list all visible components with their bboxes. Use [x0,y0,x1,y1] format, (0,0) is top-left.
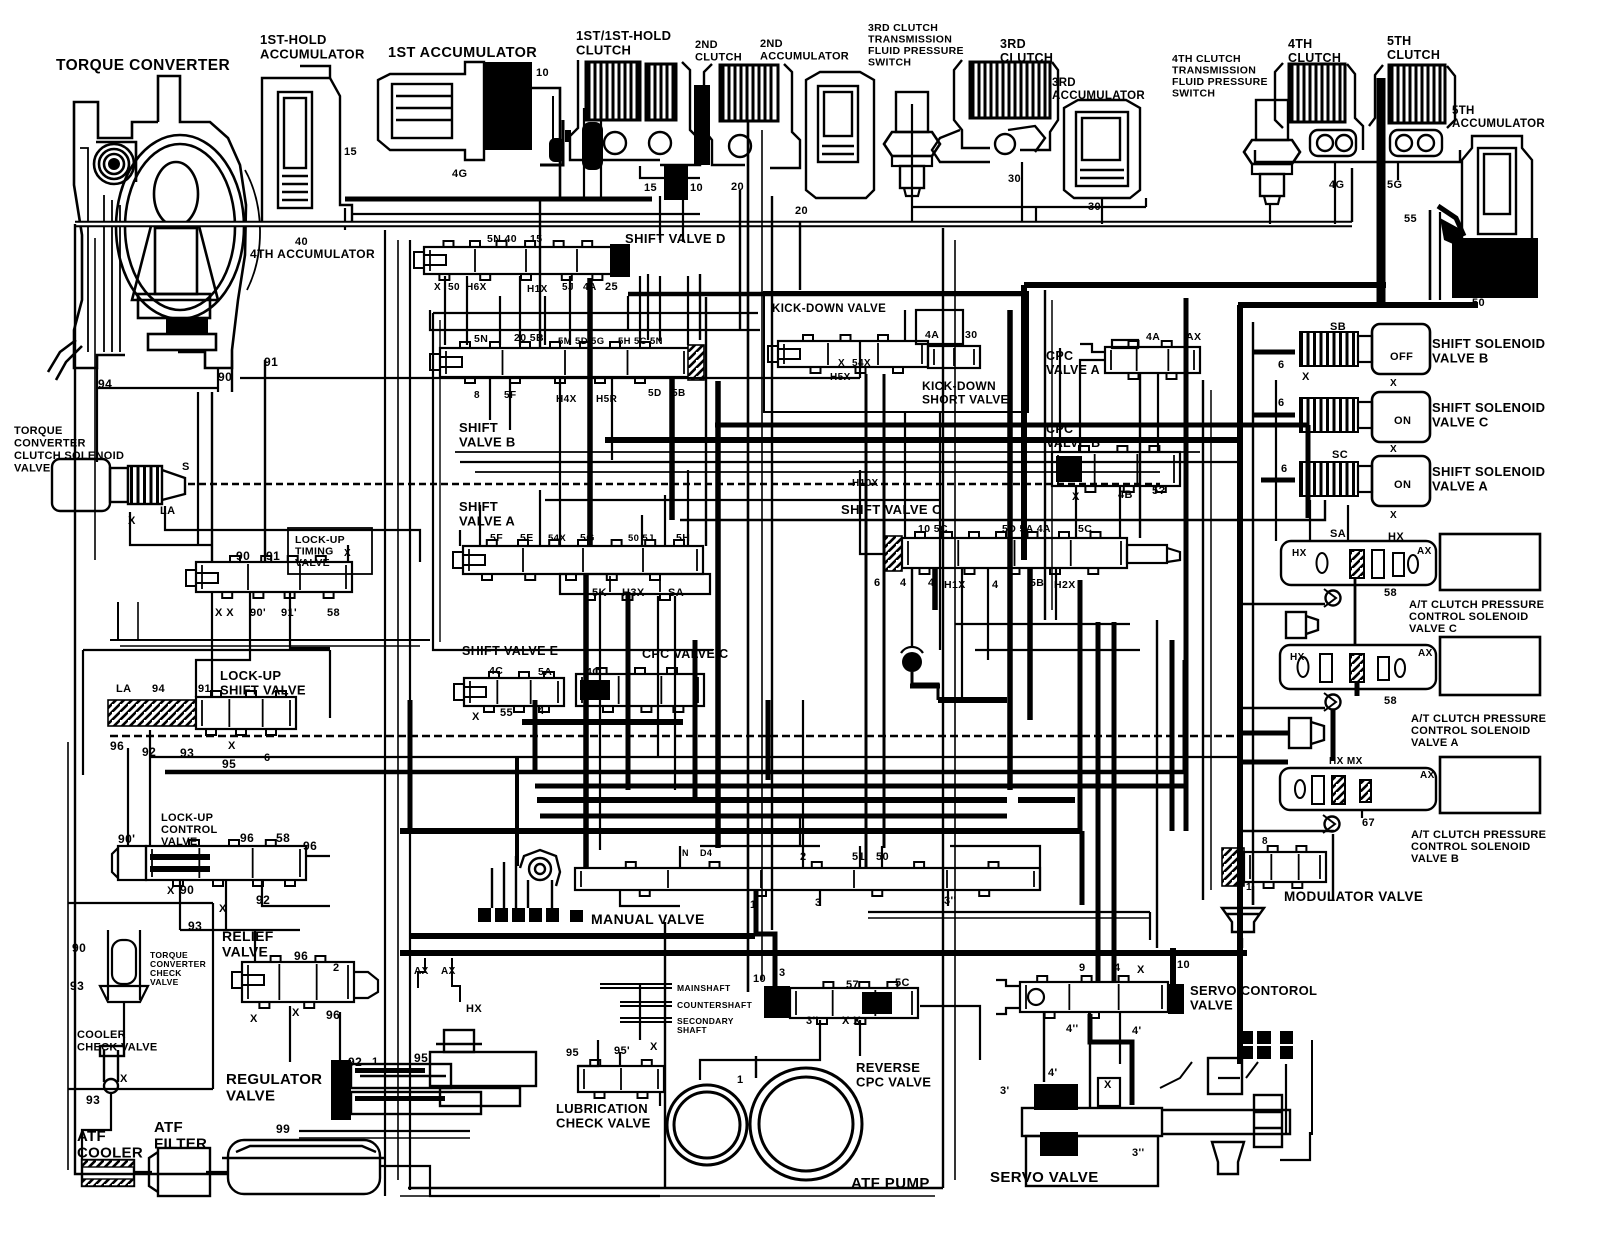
svg-text:3'': 3'' [1132,1147,1145,1159]
wire [687,470,689,546]
wire [1347,505,1349,541]
svg-text:94: 94 [152,683,166,695]
svg-text:4A: 4A [925,329,939,341]
shift valve C [902,532,1127,574]
svg-text:94: 94 [98,377,112,391]
wire 25 pipe [628,292,1024,297]
wire [519,276,521,345]
wire [409,240,411,700]
wire [165,506,420,562]
svg-text:4': 4' [1048,1067,1058,1079]
A/T CPC valve C ports [1317,550,1419,578]
check ball 2 [582,108,603,200]
svg-text:50 5J: 50 5J [628,533,654,544]
wire [289,1006,291,1062]
wire [1354,578,1357,645]
wire [799,816,801,846]
wire [657,596,659,757]
wire [1139,373,1141,538]
wire [1183,660,1188,772]
wire [539,200,541,348]
svg-text:58: 58 [327,607,340,619]
svg-text:10: 10 [536,67,549,79]
wire [1397,162,1399,180]
wire [515,757,519,866]
wire [802,700,804,868]
check ball 1 [549,138,564,162]
svg-text:96: 96 [294,949,308,963]
svg-text:X: X [650,1041,658,1053]
svg-text:SA: SA [1330,528,1346,540]
wire [939,412,941,650]
5th accumulator hook pipe [1429,210,1432,300]
svg-text:55: 55 [500,707,513,719]
shift valve D [424,241,628,280]
svg-text:HX: HX [1292,548,1307,559]
shaft stubs [600,984,672,1022]
svg-text:1ST ACCUMULATOR: 1ST ACCUMULATOR [388,45,537,61]
wire [955,623,1130,625]
wire [1240,731,1288,736]
svg-text:58: 58 [276,831,290,845]
wire [537,797,1007,803]
wire [1075,486,1077,538]
wire [197,392,199,545]
svg-text:X: X [1104,1079,1112,1091]
wire [1080,360,1105,452]
wire [127,748,129,846]
wire [771,196,773,930]
CPC valve B plug [1056,456,1082,482]
svg-text:58: 58 [1384,587,1397,599]
wire [1112,622,1117,982]
svg-text:20: 20 [731,181,744,193]
lock-up control valve spool bar 2 [150,866,210,872]
wire [499,296,501,345]
1st/2nd clutch divider (black) [694,85,710,165]
wire [583,574,589,868]
wire [1051,300,1053,610]
wire [1090,1014,1132,1105]
wire 99 pipe [299,1130,470,1132]
wire [545,499,940,501]
wire [747,120,750,992]
svg-text:AX: AX [1420,770,1435,781]
wire [627,296,629,330]
wire [687,276,689,345]
wire [522,719,683,725]
wire [1275,380,1277,541]
wire [756,890,775,986]
svg-text:AX: AX [1418,648,1433,659]
svg-text:4'': 4'' [1066,1023,1079,1035]
atf pump [667,1068,862,1180]
manual valve [575,862,1040,896]
wire [240,377,860,379]
A/T CPC valve C block [1440,534,1540,590]
lubrication check valve [578,1060,664,1098]
wire [911,568,913,648]
wire [620,890,680,906]
svg-text:58: 58 [1384,695,1397,707]
shift solenoid valve C box [1372,392,1430,442]
shift solenoid valve A coil [1300,462,1372,496]
svg-text:1: 1 [372,1056,379,1068]
svg-text:X: X [838,358,845,369]
wire [533,700,538,772]
svg-text:X: X [1390,378,1397,389]
wire [904,310,906,341]
4th clutch pressure switch [1244,100,1300,204]
wire [344,208,346,230]
1st/1st-hold clutch pack [586,62,640,120]
shift valve E [464,672,564,712]
servo control valve [1020,976,1168,1018]
svg-text:X X: X X [842,1015,861,1027]
shift valve C left hatch [884,536,902,571]
svg-text:4G: 4G [452,168,467,180]
wire [352,213,700,215]
wire [1024,282,1386,288]
wire [400,950,1247,956]
wire [1145,198,1147,207]
ball check valve symbol [901,647,923,680]
svg-text:SHIFT VALVE C: SHIFT VALVE C [841,502,942,517]
shift solenoid valve B box [1372,324,1430,374]
wire [1080,831,1085,905]
wire [400,1195,935,1197]
wire [715,423,1308,428]
wire [942,228,944,1188]
svg-text:5D: 5D [648,388,662,399]
wire [664,922,666,1188]
wire [987,568,989,660]
A/T clutch pressure control solenoid valve B body [1280,768,1436,810]
wire [1361,810,1363,818]
wire [1252,322,1254,905]
wire [1285,1064,1287,1135]
svg-text:SERVO VALVE: SERVO VALVE [990,1169,1099,1186]
1st accumulator [378,62,484,160]
wire [211,592,213,697]
wire [975,649,1140,651]
wire SA rail [680,500,1325,520]
wire [535,784,627,789]
regulator valve bars [355,1068,425,1073]
svg-text:COUNTERSHAFT: COUNTERSHAFT [677,1000,753,1010]
wire [639,276,641,341]
3rd clutch housing [932,60,1058,162]
servo control valve end cap [1168,984,1184,1014]
svg-text:9: 9 [1079,962,1086,974]
wire [920,1006,980,1060]
atf cooler [82,1160,134,1186]
wire [165,770,1185,775]
kick-down short valve [928,346,980,368]
wire [466,276,468,345]
wire [540,120,563,165]
wire [868,917,1150,919]
shift valve B [440,342,690,383]
wire [97,387,218,389]
svg-text:KICK-DOWNSHORT VALVE: KICK-DOWNSHORT VALVE [922,379,1009,407]
svg-text:SHIFT VALVE D: SHIFT VALVE D [625,231,726,246]
wire check A to rail [1240,707,1325,710]
2nd clutch pack [720,65,778,121]
wire [1007,310,1013,790]
wire [627,784,1185,789]
check valve 67 [1323,815,1340,833]
wire [1018,797,1075,803]
wire [384,230,386,1196]
wire [1055,568,1057,620]
wire [539,490,541,546]
wire [397,240,399,1180]
wire [559,377,561,546]
CPC valve C plug [580,680,610,700]
wire [475,471,1160,473]
svg-text:95: 95 [566,1047,579,1059]
svg-text:X X: X X [215,607,234,619]
wire [1078,580,1083,831]
wire [700,845,820,847]
wire [509,377,511,430]
manual valve detent teeth [478,908,583,922]
svg-text:93: 93 [70,979,84,993]
wire [345,197,652,202]
lock-up shift valve hatched plunger [108,700,196,726]
wire [761,130,763,980]
wire [1280,1132,1310,1160]
2nd clutch housing [704,64,800,168]
wire (double) [75,221,1352,228]
A/T clutch pressure control solenoid valve C body [1281,541,1436,585]
wire [640,166,700,178]
wire [459,530,461,546]
svg-text:95: 95 [222,757,236,771]
wire [196,592,250,697]
wire [659,1092,661,1106]
5th accumulator inlet wedge (black) [1440,218,1462,248]
svg-text:4': 4' [1132,1025,1142,1037]
wire [1253,413,1295,418]
svg-text:HX: HX [466,1003,482,1015]
4th/5th clutch housing [1255,63,1460,162]
3rd clutch pack [970,62,1050,118]
wire [455,451,1200,453]
A/T CPC valve B ports [1295,776,1371,804]
svg-text:4: 4 [538,705,545,717]
svg-text:4: 4 [992,579,999,591]
wire [932,568,938,610]
svg-text:93: 93 [86,1093,100,1107]
oil strainer body [222,1140,386,1194]
wire [231,360,233,392]
svg-text:5?: 5? [1152,485,1166,497]
svg-text:4: 4 [900,577,907,589]
wire [1119,486,1121,538]
svg-text:8: 8 [1262,836,1268,847]
svg-text:4A: 4A [1146,331,1160,343]
svg-text:1: 1 [1246,882,1252,893]
svg-text:96: 96 [240,831,254,845]
svg-text:AX: AX [1417,546,1432,557]
svg-text:57: 57 [846,979,859,991]
torque converter hub core (black) [108,158,120,170]
svg-text:REVERSECPC VALVE: REVERSECPC VALVE [856,1060,931,1090]
torque converter check valve [100,930,148,1002]
servo piston (black) bottom [1040,1132,1078,1156]
svg-text:LA: LA [116,683,131,695]
wire [647,274,649,340]
CPC valve A spring side [1080,340,1138,352]
wire [1218,1077,1240,1079]
servo piston (black) top [1034,1084,1078,1110]
wire [587,278,593,546]
svg-text:1: 1 [340,1108,347,1120]
wire [1059,348,1061,452]
svg-text:15: 15 [344,146,357,158]
wire [961,568,963,700]
5th accumulator [1462,136,1532,240]
lock-up feed pipes [110,639,430,641]
wire [699,274,701,340]
shift solenoid valve C coil [1300,398,1372,432]
wire [1184,298,1189,831]
wire [1021,285,1027,560]
1st/1st-hold clutch housing [570,60,700,165]
wire [868,911,1150,913]
svg-text:2: 2 [333,962,340,974]
check valve region frame [68,902,213,904]
CPC valve B [1052,446,1180,492]
cooler check valve [100,1046,124,1093]
3rd clutch pressure switch [884,92,940,196]
lock-up control valve spool bar [150,854,210,860]
tc clutch solenoid valve [52,459,185,511]
wire [860,470,884,554]
svg-text:S: S [182,461,190,473]
shift valve C right cap [1127,545,1180,563]
wire [1332,834,1334,900]
modulator funnel [1222,908,1264,932]
wire [669,377,675,520]
wire [1170,948,1176,984]
wire [262,880,330,906]
shift valve B end hatch [688,345,704,380]
svg-text:5J: 5J [562,282,574,293]
svg-text:10: 10 [1177,959,1190,971]
wire [1331,710,1336,760]
svg-text:AX: AX [414,966,429,977]
svg-text:6: 6 [874,577,881,589]
wire [75,560,228,1174]
wire [739,190,741,330]
kick-down valve [778,335,928,373]
svg-text:X: X [1302,371,1310,383]
svg-text:D4: D4 [700,848,712,858]
wire [599,592,601,850]
wire [94,238,96,560]
torque converter hub (black) [166,318,208,333]
svg-text:30: 30 [1008,173,1021,185]
wire [1170,640,1175,831]
svg-text:5E: 5E [520,532,534,544]
svg-text:H6X: H6X [466,282,487,293]
kick-down short valve chamber [916,310,963,344]
wire [380,1166,660,1196]
relief valve spring [354,972,378,998]
wire [544,296,546,345]
check valve 58 [1324,589,1341,607]
wire [904,412,906,538]
svg-text:54X: 54X [548,533,566,544]
wire [430,310,760,330]
lock-up timing valve frame [288,528,372,574]
svg-text:91: 91 [264,355,278,369]
svg-text:20: 20 [795,205,808,217]
svg-text:X: X [472,711,480,723]
wire [659,276,661,341]
svg-text:LA: LA [160,505,175,517]
wire [619,1052,621,1066]
torque converter [48,76,260,380]
wire [947,890,949,906]
wire [1044,290,1046,620]
2nd accumulator [806,72,874,198]
svg-text:6: 6 [1281,463,1288,475]
svg-text:HX: HX [1290,652,1305,663]
shift valve group frame [433,313,713,650]
wire [1096,622,1101,982]
wire [339,1012,341,1060]
check valve 58 b [1324,693,1341,711]
svg-text:X: X [250,1013,258,1025]
wire [1210,390,1212,890]
svg-text:LUBRICATIONCHECK VALVE: LUBRICATIONCHECK VALVE [556,1101,651,1131]
svg-text:3': 3' [1000,1085,1010,1097]
wire [1355,682,1360,696]
wire [134,1171,152,1173]
svg-text:10: 10 [690,182,703,194]
wire [409,830,411,1190]
wire [123,1002,125,1046]
svg-text:X: X [1390,444,1397,455]
svg-text:15: 15 [644,182,657,194]
gear indicator blocks [1239,1031,1293,1059]
wire [1351,168,1353,222]
A/T CPC valve A ports [1298,654,1406,682]
wire [1149,912,1151,940]
wire 15/10 drop [659,196,661,240]
wire [1269,204,1271,224]
wire [626,592,631,790]
wire [264,360,266,562]
wire [911,104,913,221]
wire [1252,886,1254,905]
lock-up timing valve [196,556,352,598]
wire [705,297,707,546]
svg-text:99: 99 [276,1122,290,1136]
wire [130,512,212,545]
svg-text:90': 90' [118,832,135,846]
wire AX stubs [418,958,425,988]
wire [1027,568,1033,720]
wire [569,276,571,345]
svg-text:X: X [228,740,236,752]
wire [611,377,613,460]
svg-text:50: 50 [448,282,460,293]
